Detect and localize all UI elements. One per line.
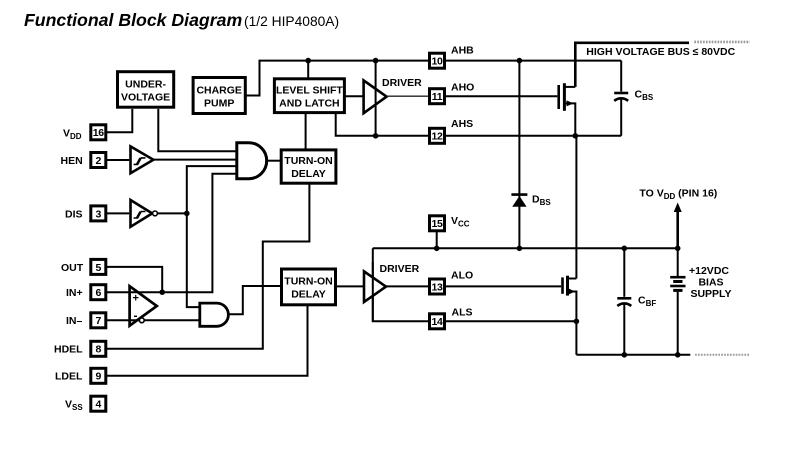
node VCC diode (517, 246, 523, 252)
wire HEN pin2 to buffer (106, 159, 129, 161)
battery +12VDC bias supply (670, 248, 685, 354)
node top line to level shift (305, 58, 311, 64)
svg-text:3: 3 (96, 208, 102, 220)
pin IN- 7 (66, 313, 106, 328)
high voltage bus hatched continuation (694, 41, 750, 44)
pin VCC 15 (430, 215, 470, 231)
wire AHS pin12 to source node (446, 135, 621, 137)
node OUT junction (159, 289, 165, 295)
svg-text:ALO: ALO (451, 270, 473, 282)
svg-text:+12VDC: +12VDC (689, 265, 729, 277)
wire lower turn-on delay output to driver (336, 285, 365, 287)
wire AHO pin11 to high mosfet gate (446, 95, 557, 97)
node bottom bus CBF (622, 352, 628, 358)
pin AHO 11 (430, 82, 475, 104)
svg-text:5: 5 (96, 262, 102, 274)
wire pin15 drop to VCC rail (436, 231, 438, 249)
svg-text:DRIVER: DRIVER (382, 77, 422, 89)
block LEVEL SHIFT AND LATCH (274, 79, 344, 113)
pin AHS 12 (430, 118, 474, 143)
wire AND A2 output to lower turn-on delay (229, 286, 282, 314)
wire level shift top to top line (307, 61, 309, 79)
svg-text:HDEL: HDEL (54, 344, 83, 356)
pin DIS 3 (65, 206, 106, 221)
wire IN+ rail through comparator up to AND input 4 (106, 174, 237, 292)
node source AHS junction (573, 133, 579, 139)
svg-text:10: 10 (431, 56, 443, 68)
wire LDEL pin9 to lower turn-on delay bottom (106, 305, 308, 376)
svg-text:BIAS: BIAS (698, 277, 723, 289)
wire VCC rail (373, 247, 678, 249)
pin IN+ 6 (66, 285, 106, 300)
wire IN- rail to lower AND input 2 (106, 319, 200, 321)
block UNDER-VOLTAGE (118, 72, 174, 108)
buffer U-HEN (schmitt) (131, 146, 154, 173)
svg-text:Functional Block Diagram: Functional Block Diagram (24, 10, 242, 30)
diode DBS (511, 195, 527, 207)
title (24, 10, 339, 30)
svg-text:DELAY: DELAY (291, 289, 326, 301)
block TURN-ON DELAY (high side) (281, 150, 336, 183)
svg-text:VCC: VCC (451, 215, 470, 229)
pin ALO 13 (430, 270, 474, 295)
svg-text:HIGH VOLTAGE BUS ≤ 80VDC: HIGH VOLTAGE BUS ≤ 80VDC (586, 46, 735, 58)
node top line to driver rail (373, 58, 379, 64)
svg-text:4: 4 (96, 399, 102, 411)
svg-text:DELAY: DELAY (291, 168, 326, 180)
wire DIS buffer to branch node (157, 212, 186, 214)
wire charge pump to top line and pin 10 (245, 61, 428, 96)
node AHS to driver rail (373, 133, 379, 139)
svg-text:PUMP: PUMP (204, 98, 234, 110)
svg-text:AHS: AHS (451, 118, 473, 130)
wire driver rail vertical (low side) (372, 262, 374, 321)
pin ALS 14 (430, 307, 473, 329)
high voltage bus line (575, 43, 689, 87)
wire DIS pin3 to buffer (106, 212, 129, 214)
transistor Q2 low-side mosfet (563, 276, 577, 355)
svg-text:OUT: OUT (61, 262, 84, 274)
node VCC CBF (622, 246, 628, 252)
wire high source to low drain vertical (575, 136, 577, 279)
svg-text:DRIVER: DRIVER (380, 263, 420, 275)
svg-text:AND LATCH: AND LATCH (279, 98, 339, 110)
wire driver rail vertical (high side) (375, 61, 377, 136)
svg-text:CHARGE: CHARGE (196, 85, 242, 97)
wire ALO pin13 to low mosfet gate (446, 285, 561, 287)
svg-text:VOLTAGE: VOLTAGE (121, 92, 170, 104)
bottom bus hatched continuation (695, 354, 749, 356)
svg-text:TURN-ON: TURN-ON (284, 276, 332, 288)
pin VSS 4 (65, 396, 106, 412)
svg-text:LEVEL SHIFT: LEVEL SHIFT (276, 85, 343, 97)
svg-text:15: 15 (431, 218, 443, 230)
capacitor CBF (617, 248, 631, 354)
wire driver output to pin 11 (thin) (387, 95, 428, 97)
svg-text:CBS: CBS (635, 89, 654, 103)
wire level shift output to driver (344, 95, 364, 97)
wire OUT pin5 down to comparator output rail (106, 267, 162, 292)
pin VDD 16 (63, 125, 106, 141)
svg-text:DBS: DBS (532, 194, 551, 208)
wire VCC rail corner down to ALS (low driver rail) (373, 248, 430, 321)
wire TO VDD arrow (674, 203, 682, 249)
svg-text:CBF: CBF (638, 295, 656, 309)
svg-text:TURN-ON: TURN-ON (284, 155, 332, 167)
svg-text:IN+: IN+ (66, 287, 83, 299)
svg-text:11: 11 (432, 91, 443, 103)
svg-text:VDD: VDD (63, 127, 82, 141)
wire HEN buffer to AND input 2 (153, 159, 236, 161)
svg-text:9: 9 (96, 371, 102, 383)
wire AHB line pin10 to bootstrap cap (446, 60, 621, 62)
svg-text:IN–: IN– (66, 315, 83, 327)
transistor Q1 high-side mosfet (559, 83, 576, 136)
node ALS source junction (574, 319, 580, 325)
comparator U-IN (triangle) (130, 286, 157, 326)
svg-text:HEN: HEN (61, 155, 83, 167)
svg-text:UNDER-: UNDER- (125, 79, 166, 91)
svg-text:LDEL: LDEL (55, 371, 83, 383)
svg-text:TO VDD (PIN 16): TO VDD (PIN 16) (639, 188, 717, 202)
svg-text:12: 12 (431, 131, 443, 143)
wire driver output to pin 13 (386, 285, 430, 287)
label +12VDC BIAS SUPPLY (689, 265, 732, 300)
svg-text:6: 6 (96, 287, 102, 299)
svg-text:AHB: AHB (451, 45, 474, 57)
svg-text:SUPPLY: SUPPLY (690, 288, 731, 300)
bottom bus line (576, 354, 690, 356)
pin HDEL 8 (54, 341, 106, 356)
pin LDEL 9 (55, 368, 106, 383)
AND gate A2 (2-input, low side) (200, 303, 229, 326)
driver U-LO triangle (364, 271, 386, 302)
svg-text:+: + (133, 293, 139, 305)
block CHARGE PUMP (193, 78, 245, 114)
comparator inverting bubble (139, 318, 144, 323)
block TURN-ON DELAY (low side) (282, 269, 336, 305)
svg-text:2: 2 (96, 155, 102, 167)
svg-text:VSS: VSS (65, 399, 83, 413)
svg-text:8: 8 (96, 344, 102, 356)
node DIS branch (184, 211, 190, 217)
capacitor CBS (614, 61, 628, 136)
node bottom bus battery (675, 352, 681, 358)
svg-text:14: 14 (431, 316, 443, 328)
svg-text:16: 16 (93, 127, 105, 139)
wire diode branch AHB down to VCC rail (518, 61, 520, 249)
svg-text:(1/2 HIP4080A): (1/2 HIP4080A) (244, 14, 339, 29)
wire AND A1 output to turn-on delay (267, 160, 281, 162)
wire DIS branch vertical to AND input 3 and lower AND input 1 (187, 166, 237, 307)
wire HDEL pin8 to turn-on delay bottom (106, 183, 310, 349)
svg-text:7: 7 (96, 315, 102, 327)
svg-text:ALS: ALS (452, 307, 473, 319)
pin OUT 5 (61, 259, 106, 274)
pin HEN 2 (61, 153, 106, 168)
AND gate A1 (4-input, high side) (237, 143, 267, 179)
node AHB to diode DBS (517, 58, 523, 64)
driver U-HI triangle (364, 80, 387, 113)
node VCC pin15 (434, 246, 440, 252)
wire turn-on delay top to level shift bottom (305, 113, 307, 150)
wire level shift bottom to AHS line (336, 113, 428, 136)
wire VDD pin16 to under-voltage (106, 109, 133, 132)
buffer U-DIS (schmitt inverting) (131, 200, 158, 227)
svg-text:13: 13 (431, 281, 443, 293)
svg-text:AHO: AHO (451, 82, 474, 94)
wire ALS pin14 to source node (446, 320, 576, 322)
wire under-voltage to AND input 1 (158, 109, 237, 151)
node VCC battery (675, 246, 681, 252)
svg-text:-: - (134, 309, 138, 323)
svg-text:DIS: DIS (65, 208, 83, 220)
pin AHB 10 (430, 45, 475, 69)
